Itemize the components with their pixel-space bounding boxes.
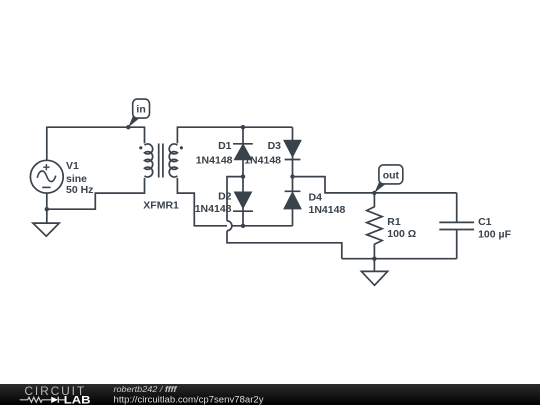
junction node dots <box>45 125 377 261</box>
svg-text:100 µF: 100 µF <box>478 229 511 241</box>
diode D3 <box>285 127 301 176</box>
svg-text:1N4148: 1N4148 <box>195 203 232 215</box>
wire bridge negative: mid junction left, hop down, to ground rail <box>227 177 243 221</box>
svg-text:1N4148: 1N4148 <box>196 154 233 166</box>
wire XFMR1 secondary top to bridge top rail <box>177 127 292 143</box>
wire bottom ground rail to R1 and C1 bottoms <box>342 258 457 260</box>
svg-text:robertb242 / ffff: robertb242 / ffff <box>114 384 178 394</box>
svg-text:LAB: LAB <box>64 394 91 405</box>
wire XFMR1 secondary bottom to bridge bottom rail <box>177 178 292 226</box>
node D1 top junction dot <box>241 125 245 129</box>
wire hop over bottom rail <box>227 221 232 231</box>
node flag out <box>374 165 402 193</box>
node V1 bottom junction dot <box>45 207 49 211</box>
svg-text:1N4148: 1N4148 <box>309 204 346 216</box>
node D3-D4 mid junction dot <box>290 174 294 178</box>
node R1 bottom junction dot <box>372 257 376 261</box>
diode D4 <box>285 177 301 226</box>
wire V1 top to in node to XFMR1 primary top <box>47 127 145 160</box>
svg-text:out: out <box>383 169 400 181</box>
svg-text:in: in <box>136 104 145 116</box>
capacitor C1 <box>439 193 474 259</box>
svg-text:D4: D4 <box>309 191 323 203</box>
CircuitLab logo <box>20 384 91 405</box>
node D2 bottom junction dot <box>241 224 245 228</box>
node flag in <box>128 99 149 127</box>
transformer XFMR1 primary coil <box>145 144 153 177</box>
node D1-D2 mid junction dot <box>241 174 245 178</box>
svg-text:50 Hz: 50 Hz <box>66 184 93 196</box>
svg-text:D3: D3 <box>268 140 282 152</box>
svg-text:sine: sine <box>66 173 87 185</box>
labels <box>66 140 512 241</box>
resistor R1 <box>367 193 382 259</box>
transformer XFMR1 secondary coil <box>169 144 177 177</box>
ground GND1 <box>33 223 59 236</box>
svg-text:http://circuitlab.com/cp7senv7: http://circuitlab.com/cp7senv78ar2y <box>114 394 265 404</box>
ground GND2 <box>361 271 387 285</box>
wire bridge positive: mid junction right to out rail <box>293 177 457 193</box>
transformer XFMR1 core <box>159 144 163 178</box>
svg-text:100 Ω: 100 Ω <box>387 228 416 240</box>
wire R1 bottom to ground <box>373 259 375 272</box>
transformer secondary phase dot <box>180 146 183 149</box>
wire XFMR1 primary bottom to V1 bottom <box>47 178 145 209</box>
svg-text:D1: D1 <box>218 140 232 152</box>
svg-text:1N4148: 1N4148 <box>244 154 281 166</box>
diode D1 <box>233 127 253 176</box>
node out junction dot <box>372 191 376 195</box>
svg-text:C1: C1 <box>478 216 492 228</box>
svg-text:XFMR1: XFMR1 <box>143 199 179 211</box>
node in junction dot <box>126 125 130 129</box>
diode D2 <box>233 177 253 226</box>
wire hop continuation to bottom ground rail <box>227 231 342 259</box>
wire V1 bottom to ground <box>46 193 48 223</box>
svg-text:D2: D2 <box>218 190 232 202</box>
transformer primary phase dot <box>139 146 142 149</box>
voltage source V1 <box>30 160 63 193</box>
svg-text:R1: R1 <box>387 216 401 228</box>
svg-text:V1: V1 <box>66 160 79 172</box>
